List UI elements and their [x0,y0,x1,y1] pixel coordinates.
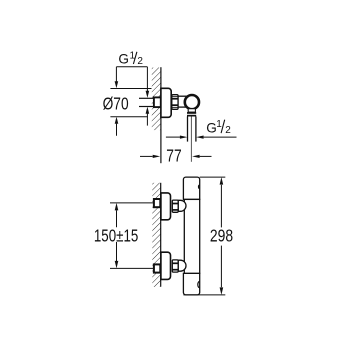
svg-text:150±15: 150±15 [94,225,138,245]
298 bottom extension line [183,294,225,296]
G1/2 pipe dim right line [204,136,237,138]
G1/2 pipe dim right arrow [196,136,204,139]
small arc detail top boss [198,185,199,189]
outlet neck below knob [188,109,195,112]
escutcheon (side profile) [161,88,171,117]
svg-text:G: G [118,52,129,67]
150 dim lower arrow [115,261,119,269]
298 top extension line [200,176,226,178]
svg-text:Ø70: Ø70 [103,94,129,114]
bottom hex union nut behind wall [154,264,160,272]
dia70 bottom arrow tail [116,124,118,136]
label G1/2 lower: fraction slash [221,120,225,133]
dia70 top extension line [110,88,151,90]
leader left drop [115,67,117,82]
150 dim line lower segment [116,242,118,261]
150 dim bottom extension line [110,267,153,269]
dia70 bottom arrow (up, tip on bottom ext line) [115,117,119,124]
leader right arrowhead (down, tip on stub pipe top) [146,91,150,98]
wall face line (front view) [160,183,162,287]
298 dim line upper segment [220,185,222,228]
small arc detail bottom boss [198,282,200,288]
outlet pipe centre line / extension [190,117,192,162]
supply stub pipe behind wall [139,97,154,99]
bar top boss [183,177,199,199]
concealed union fitting in wall [154,97,161,107]
outlet pipe walls [187,117,189,142]
svg-text:2: 2 [225,125,231,136]
bottom connection dome [178,260,186,271]
150 dim line upper segment [116,210,118,227]
top hex union nut behind wall [154,199,160,207]
top union nut (knurled) [172,200,178,212]
wall hatching (front view) [152,183,160,287]
union nut (knurled, side view) [172,95,178,110]
77 dim right arrow [192,155,200,158]
label G1/2 top: fraction slash [133,52,137,64]
298 dim upper arrow [220,177,224,185]
bottom escutcheon (front view profile) [161,252,171,279]
bottom union nut (knurled) [172,260,178,272]
tail below stub arrow [146,114,148,126]
svg-text:2: 2 [137,56,143,67]
top connection dome [178,200,186,211]
leader underline of top G1/2 [116,66,147,68]
77 dim left arrow [153,155,161,158]
wall face line (top view) [160,67,162,163]
150 dim upper arrow [115,203,119,211]
outlet nut band 2 [187,115,196,117]
top escutcheon (front view profile) [161,193,171,220]
150 dim top extension line [110,202,153,204]
bar bottom boss [183,273,199,295]
298 dim line lower segment [220,246,222,288]
dia70 bottom extension line [110,116,147,118]
77 dim right line [200,155,212,157]
bar body [184,199,199,273]
svg-text:1: 1 [216,119,222,130]
svg-text:77: 77 [166,145,181,165]
leader left arrowhead (down, tip on O70 top ext line) [115,81,119,88]
wall hatching (top view) [152,68,161,131]
leader right drop [146,67,148,91]
77 dim left line [140,155,153,157]
control knob (circle, side view) [185,95,199,109]
298 dim lower arrow [220,287,224,295]
valve body (side view) [178,96,188,107]
outlet nut band 1 [187,112,196,114]
G1/2 pipe dim left arrow [180,136,188,139]
G1/2 pipe dim left line [166,136,180,138]
arrow up under stub pipe [146,107,150,114]
svg-text:298: 298 [210,226,233,246]
